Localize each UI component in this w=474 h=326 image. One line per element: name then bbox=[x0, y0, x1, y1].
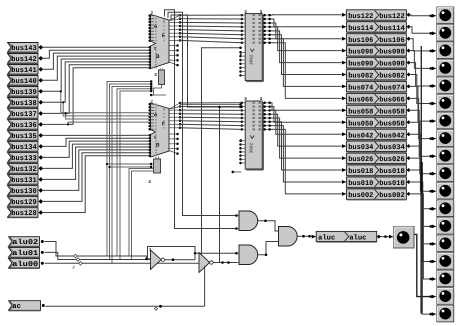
tag pair bus018 bbox=[342, 168, 347, 172]
input tag alu00 bbox=[9, 258, 40, 268]
G3 output wire to aluc tag bbox=[297, 235, 314, 237]
svg-text:alu02: alu02 bbox=[12, 238, 38, 247]
svg-text:0: 0 bbox=[154, 47, 156, 51]
svg-text:bus134: bus134 bbox=[11, 143, 37, 152]
input tag bus142 bbox=[8, 54, 39, 64]
LED probe 13 bbox=[437, 218, 454, 235]
AND gate G2 bbox=[239, 245, 258, 265]
wire aluc to LED bbox=[381, 236, 392, 238]
svg-text:bus082: bus082 bbox=[379, 72, 405, 81]
bus rip diamonds on control bundle bbox=[74, 254, 78, 258]
ALU U1 aux output pins bbox=[176, 44, 179, 47]
fan wires U3 outputs to tags 1-8 bbox=[271, 14, 342, 16]
LED probe 14 bbox=[437, 235, 454, 252]
svg-text:bus138: bus138 bbox=[11, 99, 36, 108]
ac wire to inverter X2 bbox=[46, 305, 205, 307]
svg-text:bus114: bus114 bbox=[348, 24, 374, 33]
input tag ac bbox=[9, 301, 41, 311]
alu02 wire bbox=[45, 242, 130, 257]
carry pair from U2 box to control bundle bbox=[129, 169, 154, 257]
svg-text:bus098: bus098 bbox=[379, 48, 405, 57]
wire branch to probe 18 bbox=[422, 194, 434, 314]
svg-text:bus010: bus010 bbox=[379, 179, 405, 188]
svg-text:bus143: bus143 bbox=[11, 44, 37, 53]
svg-text:bus090: bus090 bbox=[348, 60, 373, 69]
LED probe 1 bbox=[437, 7, 454, 24]
tag pair bus010 bbox=[342, 180, 347, 184]
input tag bus128 bbox=[8, 208, 39, 218]
svg-text:bus050: bus050 bbox=[348, 119, 373, 128]
input tag bus130 bbox=[8, 186, 39, 196]
junction dot below U4 bbox=[232, 171, 235, 174]
input tag alu01 bbox=[9, 248, 40, 258]
vertical wire to U4 control row bbox=[171, 15, 241, 107]
svg-text:bus130: bus130 bbox=[11, 187, 36, 196]
input tag bus137 bbox=[8, 109, 39, 119]
svg-text:bus141: bus141 bbox=[11, 66, 37, 75]
AND gate G3 (output) bbox=[279, 227, 298, 247]
svg-text:bus106: bus106 bbox=[348, 36, 373, 45]
svg-text:bus128: bus128 bbox=[11, 209, 36, 218]
svg-text:bus002: bus002 bbox=[379, 191, 405, 200]
input tag bus143 bbox=[8, 43, 39, 53]
tag pair aluc bbox=[312, 235, 317, 239]
svg-text:bus026: bus026 bbox=[348, 155, 373, 164]
alu00 wire bbox=[45, 262, 147, 264]
tag pair bus082 bbox=[342, 73, 347, 77]
tag pair bus042 bbox=[342, 132, 347, 136]
svg-text:bus058: bus058 bbox=[348, 107, 373, 116]
dark overlap band on jog channel bbox=[420, 46, 422, 162]
ALU U1 A-input pins bbox=[148, 14, 151, 17]
svg-text:bus066: bus066 bbox=[379, 96, 405, 105]
svg-text:bus140: bus140 bbox=[11, 77, 36, 86]
tag pair bus106 bbox=[342, 37, 347, 41]
wire bundle bus135-128 to U2 B inputs bbox=[42, 134, 150, 136]
ALU U2 F-output pins bbox=[179, 102, 182, 105]
inverter X2 output wire bbox=[213, 262, 236, 264]
long vertical from U3 select pin down to inverter X2 bbox=[202, 48, 241, 262]
input tag alu02 bbox=[9, 237, 40, 247]
fan wires U4 outputs to tags 9-16 bbox=[271, 103, 342, 111]
input tag bus132 bbox=[8, 164, 39, 174]
control vertical wire A (to AND1 upper input) bbox=[168, 12, 237, 215]
input tag bus131 bbox=[8, 175, 39, 185]
svg-text:bus132: bus132 bbox=[11, 165, 36, 174]
inverter X2 bbox=[199, 253, 210, 273]
inverter X1 output wire bbox=[165, 259, 196, 261]
tag pair bus058 bbox=[342, 108, 347, 112]
svg-text:alu00: alu00 bbox=[12, 260, 38, 269]
svg-text:bus114: bus114 bbox=[379, 24, 405, 33]
input tag bus135 bbox=[8, 131, 39, 141]
svg-text:bus122: bus122 bbox=[379, 12, 405, 21]
svg-text:bus082: bus082 bbox=[348, 72, 373, 81]
svg-text:bus074: bus074 bbox=[348, 84, 374, 93]
svg-text:bus058: bus058 bbox=[379, 107, 405, 116]
G2 output wire to G3 bbox=[257, 242, 278, 255]
LED probe 11 bbox=[437, 183, 454, 200]
input tag bus129 bbox=[8, 197, 39, 207]
svg-text:bus042: bus042 bbox=[379, 131, 405, 140]
LED probe 15 bbox=[437, 253, 454, 270]
svg-text:3662: 3662 bbox=[250, 142, 255, 153]
control vertical wire B (to AND1 lower input) bbox=[165, 10, 237, 229]
wire aluc LED out to probe 17 bbox=[414, 234, 434, 296]
input tag bus136 bbox=[8, 120, 39, 130]
wire bundle U2 outputs to U4 bbox=[180, 102, 242, 104]
ALU U2 (bottom 74181-style) bbox=[151, 103, 170, 157]
svg-text:alu01: alu01 bbox=[12, 249, 39, 258]
input tag bus138 bbox=[8, 98, 39, 108]
input tag bus140 bbox=[8, 76, 39, 86]
input tag bus139 bbox=[8, 87, 39, 97]
tag pair bus098 bbox=[342, 49, 347, 53]
ALU U2 B-input pins bbox=[148, 134, 151, 137]
tag pair bus050 bbox=[342, 120, 347, 124]
svg-text:2: 2 bbox=[73, 266, 75, 270]
svg-text:aluc: aluc bbox=[318, 233, 335, 242]
svg-text:bus034: bus034 bbox=[348, 143, 374, 152]
AND2 upper input wire bbox=[195, 252, 237, 254]
inverter X1 bbox=[151, 250, 162, 270]
LED probe 6 bbox=[437, 95, 454, 112]
register U3 (top mid component) bbox=[245, 14, 262, 81]
LED probe 10 bbox=[437, 165, 454, 182]
carry-chain vertical wires x107-112 bbox=[107, 82, 151, 257]
LED probe 9 bbox=[437, 147, 454, 164]
tag pair bus026 bbox=[342, 156, 347, 160]
branch from U4 control row down to X2 output bbox=[219, 107, 221, 263]
tag pair bus002 bbox=[342, 192, 347, 196]
taps to U2 carry box bbox=[107, 163, 151, 165]
U2 top carry pin to U4 bbox=[180, 104, 241, 106]
ALU U1 F-output pins bbox=[179, 14, 182, 17]
branch wires down to U2 A inputs bbox=[61, 91, 150, 113]
svg-text:bus074: bus074 bbox=[379, 84, 405, 93]
register U4 (bottom mid component) bbox=[245, 101, 262, 169]
svg-text:bus129: bus129 bbox=[11, 198, 36, 207]
svg-text:bus098: bus098 bbox=[348, 48, 373, 57]
svg-text:bus139: bus139 bbox=[11, 88, 36, 97]
svg-text:bus018: bus018 bbox=[379, 167, 405, 176]
input tag bus141 bbox=[8, 65, 39, 75]
svg-text:bus137: bus137 bbox=[11, 110, 36, 119]
svg-text:bus133: bus133 bbox=[11, 154, 37, 163]
input tag bus133 bbox=[8, 153, 39, 163]
ALU U1 B-input pins bbox=[148, 46, 151, 49]
svg-text:3662: 3662 bbox=[250, 54, 255, 65]
LED probe 7 bbox=[437, 112, 454, 129]
tag pair bus034 bbox=[342, 144, 347, 148]
svg-text:0: 0 bbox=[154, 135, 156, 139]
svg-text:bus050: bus050 bbox=[379, 119, 405, 128]
svg-text:ac: ac bbox=[12, 303, 21, 311]
svg-text:bus090: bus090 bbox=[379, 60, 405, 69]
LED probe for aluc bbox=[394, 227, 415, 249]
carry box below U2 bbox=[154, 159, 161, 173]
LED probe 3 bbox=[437, 42, 454, 59]
carry pair x117/120 from below U1 to control bundle bbox=[117, 89, 151, 256]
svg-text:bus026: bus026 bbox=[379, 155, 405, 164]
svg-text:aluc: aluc bbox=[349, 233, 366, 242]
AND gate G1 bbox=[239, 211, 258, 231]
G1 output wire to G3 bbox=[257, 221, 278, 231]
svg-text:bus010: bus010 bbox=[348, 179, 373, 188]
control bundle into inverter 1 bbox=[129, 256, 151, 259]
LED probe 2 bbox=[437, 25, 454, 41]
ALU U2 A-input pins bbox=[148, 103, 151, 106]
svg-text:bus135: bus135 bbox=[11, 132, 36, 141]
wire bundle U1 outputs to U3 bbox=[180, 14, 242, 16]
svg-text:bus122: bus122 bbox=[348, 12, 373, 21]
svg-text:bus136: bus136 bbox=[11, 121, 36, 130]
LED probe 18 bbox=[437, 305, 454, 322]
svg-text:bus002: bus002 bbox=[348, 191, 373, 200]
LED probe 16 bbox=[437, 270, 454, 287]
LED probe 17 bbox=[437, 288, 454, 305]
svg-text:bus042: bus042 bbox=[348, 131, 373, 140]
alu01 wire bbox=[45, 252, 132, 259]
svg-text:bus034: bus034 bbox=[379, 143, 405, 152]
LED probe 4 bbox=[437, 60, 454, 76]
svg-text:bus018: bus018 bbox=[348, 167, 373, 176]
vertical from ac wire up into X2 bbox=[204, 266, 206, 306]
svg-text:bus066: bus066 bbox=[348, 96, 373, 105]
svg-text:bus142: bus142 bbox=[11, 55, 36, 64]
tag pair bus066 bbox=[342, 97, 347, 101]
ALU U2 aux output pins bbox=[176, 133, 179, 136]
input tag bus134 bbox=[8, 142, 39, 152]
carry box below U1 bbox=[159, 70, 165, 85]
tag pair bus090 bbox=[342, 61, 347, 65]
tag pair bus074 bbox=[342, 85, 347, 89]
ALU U1 (top 74181-style) bbox=[151, 15, 170, 69]
tag pair bus114 bbox=[342, 25, 347, 29]
svg-text:bus106: bus106 bbox=[379, 36, 405, 45]
ALU pin tick marks bbox=[155, 15, 157, 17]
LED probe 8 bbox=[437, 130, 454, 147]
LED probe 5 bbox=[437, 77, 454, 94]
LED probe 12 bbox=[437, 200, 454, 217]
jog wires tags to LEDs bbox=[411, 15, 434, 16]
tag pair bus122 bbox=[342, 13, 347, 17]
wire bundle bus143-136 to U1 B inputs bbox=[42, 46, 150, 48]
svg-text:bus131: bus131 bbox=[11, 176, 37, 185]
feedover wire top bbox=[148, 247, 196, 260]
